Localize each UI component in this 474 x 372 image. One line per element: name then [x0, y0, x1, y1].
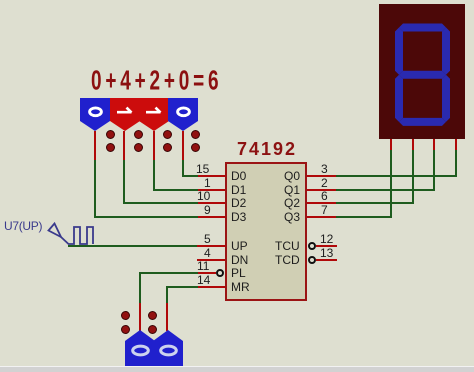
pin number 14	[197, 274, 210, 286]
logic state input C (red 1)	[139, 98, 170, 133]
IC pin name D1	[231, 184, 246, 196]
wire: Q1 horizontal to display pin3	[336, 189, 435, 191]
wire: box1 vertical to D3 row	[94, 131, 96, 160]
IC pin name PL	[231, 267, 246, 279]
pin number 13	[320, 247, 333, 259]
junction dot B1	[134, 130, 143, 139]
IC pin name Q3	[284, 211, 300, 223]
title text 0+4+2+0=6	[91, 67, 219, 93]
bottom junction dot F2	[148, 325, 157, 334]
wire: PL vertical down to bottom box1	[139, 272, 141, 303]
logic state input B (red 1)	[110, 98, 141, 133]
pin stub Q1 (2)	[307, 189, 336, 191]
clock source U7(UP) label	[4, 221, 42, 232]
IC pin name TCD	[275, 254, 300, 266]
pin stub D1 (1)	[198, 189, 225, 191]
bottom junction dot E1	[121, 311, 130, 320]
junction dot B2	[134, 143, 143, 152]
junction dot C1	[163, 130, 172, 139]
pin number 5	[204, 233, 211, 245]
IC label 74192	[237, 141, 297, 158]
junction dot C2	[163, 143, 172, 152]
pin number 2	[321, 177, 328, 189]
IC pin name TCU	[275, 240, 300, 252]
wire: Q2 horizontal to display pin2	[336, 202, 414, 204]
pin number 7	[321, 204, 328, 216]
IC pin name DN	[231, 254, 248, 266]
IC pin name MR	[231, 281, 250, 293]
wire: D0 horizontal	[182, 175, 198, 177]
TCD bubble	[308, 256, 316, 264]
junction dot A2	[106, 143, 115, 152]
IC pin name D3	[231, 211, 246, 223]
wire: display pin4 vertical	[455, 150, 457, 177]
logic state input A (blue 0)	[80, 98, 111, 133]
wire: D3 horizontal	[94, 216, 198, 218]
wire: Q3 horizontal to display pin1	[336, 216, 392, 218]
wire: box4 vertical to D0 row	[182, 131, 184, 160]
wire: MR vertical down to bottom box2	[166, 286, 168, 303]
wire: box2 vertical to D2 row	[123, 131, 125, 160]
wire: display pin3 vertical	[433, 150, 435, 191]
junction dot D1	[191, 130, 200, 139]
pin number 6	[321, 190, 328, 202]
IC pin name D2	[231, 197, 246, 209]
bottom junction dot F1	[148, 311, 157, 320]
wire: PL horizontal	[139, 272, 198, 274]
logic state input D (blue 0)	[168, 98, 199, 133]
pin stub D3 (9)	[198, 216, 225, 218]
PL bubble	[216, 269, 224, 277]
pin number 4	[204, 247, 211, 259]
IC pin name D0	[231, 170, 246, 182]
bottom junction dot E2	[121, 325, 130, 334]
junction dot D2	[191, 143, 200, 152]
pin stub D2 (10)	[198, 202, 225, 204]
pin stub DN (4)	[197, 259, 225, 261]
bottom window strip	[0, 366, 474, 372]
pin number 10	[197, 190, 210, 202]
logic probe E (blue 0, bottom)	[125, 330, 156, 366]
wire: D1 horizontal	[153, 189, 198, 191]
logic probe F (blue 0, bottom)	[153, 330, 184, 366]
wire: clock to UP	[68, 245, 197, 247]
IC pin name Q2	[284, 197, 300, 209]
pin number 11	[197, 260, 209, 272]
IC pin name Q1	[284, 184, 300, 196]
IC U1 74192 body	[225, 162, 307, 301]
wire: D2 horizontal	[123, 202, 198, 204]
TCU bubble	[308, 242, 316, 250]
pin stub UP (5)	[197, 245, 225, 247]
pin stub TCU (12)	[316, 245, 337, 247]
pin stub PL (11)	[198, 272, 216, 274]
wire: display pin2 vertical	[412, 150, 414, 204]
pin stub TCD (13)	[316, 259, 337, 261]
pin stub MR (14)	[198, 286, 225, 288]
pin number 15	[196, 163, 209, 175]
pin number 9	[204, 204, 211, 216]
pin stub Q2 (6)	[307, 202, 336, 204]
wire: MR horizontal	[166, 286, 198, 288]
wire: display pin1 vertical	[390, 150, 392, 218]
pin number 1	[204, 177, 211, 189]
pin stub Q3 (7)	[307, 216, 336, 218]
wire: box3 vertical to D1 row	[153, 131, 155, 160]
junction dot A1	[106, 130, 115, 139]
wire: Q0 horizontal to display pin4	[336, 175, 457, 177]
clock source symbol	[44, 219, 116, 249]
7-segment digit 8	[379, 4, 465, 139]
pin stub Q0 (3)	[307, 175, 336, 177]
7-segment display body	[379, 4, 465, 139]
IC pin name Q0	[284, 170, 300, 182]
pin stub D0 (15)	[198, 175, 225, 177]
pin number 12	[320, 233, 333, 245]
IC pin name UP	[231, 240, 248, 252]
pin number 3	[321, 163, 328, 175]
